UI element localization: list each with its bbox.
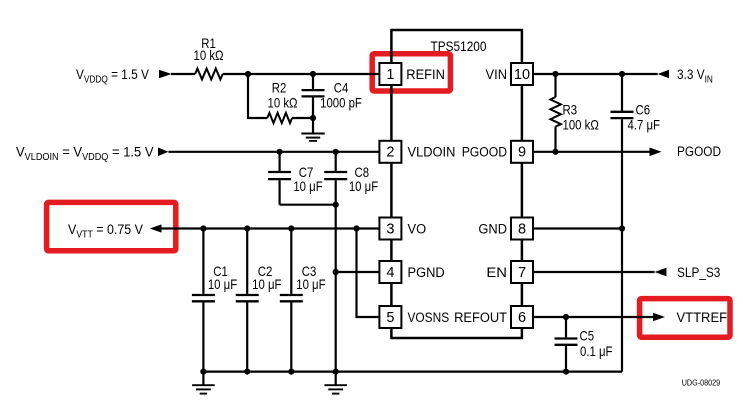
ground rail wire	[203, 371, 622, 373]
pin label PGOOD	[462, 144, 507, 160]
wire down to R2	[248, 74, 267, 118]
input arrow VLDOIN	[158, 148, 168, 157]
svg-text:4.7 μF: 4.7 μF	[628, 118, 661, 133]
IC U1 TPS51200 body outline	[391, 30, 522, 338]
svg-text:SLP_S3: SLP_S3	[677, 264, 720, 280]
wire R1 to pin 1	[223, 73, 380, 75]
node rail C8 branch	[333, 369, 339, 375]
label R2 value	[272, 81, 287, 96]
pin 1 box	[379, 63, 401, 85]
pin 7 box	[511, 261, 533, 283]
node C2 top	[244, 225, 250, 231]
pin label VLDOIN	[408, 144, 456, 160]
ground under C4	[301, 133, 324, 135]
capacitor C5	[565, 317, 567, 337]
svg-text:R2: R2	[272, 81, 287, 96]
wire joining C7 and C8 bottoms	[280, 204, 336, 206]
label C1 value	[213, 264, 228, 279]
svg-text:10 μF: 10 μF	[293, 179, 323, 194]
capacitor C4	[312, 74, 314, 89]
output arrow VTTREF	[653, 313, 665, 322]
node R2 branch	[245, 71, 251, 77]
label C7 value	[299, 165, 314, 180]
node C3 top	[288, 225, 294, 231]
pin 5 box	[379, 306, 401, 328]
resistor R1	[195, 69, 223, 80]
svg-text:C8: C8	[355, 165, 370, 180]
wire VDDQ input to R1	[171, 73, 195, 75]
label UDG-08029	[682, 378, 720, 388]
svg-text:VIN: VIN	[486, 66, 507, 82]
pin label VO	[408, 221, 427, 237]
wire GND pin 8 to C6 line	[533, 227, 622, 229]
node C5 bottom on rail	[563, 369, 569, 375]
capacitor C6	[621, 74, 623, 111]
node R3 top	[552, 71, 558, 77]
pin label REFIN	[406, 66, 445, 82]
wire REFOUT pin 6 to VTTREF	[533, 316, 653, 318]
pin label VOSNS	[408, 309, 450, 325]
svg-text:VO: VO	[408, 221, 427, 237]
svg-text:VTTREF: VTTREF	[677, 309, 728, 325]
pin 9 box	[511, 141, 533, 163]
node C6 top	[619, 71, 625, 77]
svg-text:10 μF: 10 μF	[349, 179, 379, 194]
svg-text:0.1 μF: 0.1 μF	[580, 344, 613, 359]
svg-text:PGOOD: PGOOD	[462, 144, 507, 160]
input arrow 3.3VIN	[658, 70, 669, 79]
node C1 top	[200, 225, 206, 231]
pin 10 box	[511, 63, 533, 85]
wire VOSNS tap down to pin 5	[357, 229, 381, 318]
svg-text:10 μF: 10 μF	[208, 277, 238, 292]
svg-text:1: 1	[386, 67, 394, 83]
label TPS51200	[431, 38, 487, 54]
label C8 value	[355, 165, 370, 180]
svg-text:PGOOD: PGOOD	[677, 143, 721, 159]
input arrow SLP_S3	[655, 268, 667, 277]
highlight box around VTTREF label	[640, 299, 730, 338]
capacitor C7	[279, 152, 281, 171]
pin label VIN	[486, 66, 507, 82]
pin label GND	[478, 221, 507, 237]
input arrow VDDQ	[159, 70, 172, 79]
output arrow PGOOD	[650, 148, 662, 157]
pin 2 box	[379, 141, 401, 163]
label PGOOD output	[677, 143, 721, 159]
label VTT output	[68, 222, 143, 240]
svg-text:UDG-08029: UDG-08029	[682, 378, 720, 388]
label R3 value	[563, 102, 578, 117]
svg-text:10 μF: 10 μF	[296, 277, 326, 292]
svg-text:10 kΩ: 10 kΩ	[193, 48, 223, 63]
wire C8 bottom down to ground rail	[335, 205, 337, 372]
svg-text:100 kΩ: 100 kΩ	[563, 118, 599, 133]
label VLDOIN source	[16, 144, 154, 163]
wire VTT rail to pin 3	[162, 227, 381, 229]
wire EN pin 7 to SLP_S3	[533, 271, 655, 273]
svg-text:4: 4	[386, 265, 394, 281]
node C5 top	[563, 314, 569, 320]
pin label EN	[486, 265, 507, 281]
svg-text:8: 8	[518, 221, 526, 237]
svg-text:TPS51200: TPS51200	[431, 38, 487, 54]
label C3 value	[302, 264, 317, 279]
label R1 value	[201, 36, 216, 51]
label SLP_S3	[677, 264, 720, 280]
svg-text:9: 9	[518, 145, 526, 161]
svg-text:2: 2	[386, 145, 394, 161]
svg-text:REFIN: REFIN	[406, 66, 445, 82]
pin 3 box	[379, 218, 401, 240]
svg-text:PGND: PGND	[408, 264, 445, 280]
svg-text:3: 3	[386, 221, 394, 237]
pin 6 box	[511, 306, 533, 328]
resistor R3	[554, 74, 556, 97]
label 3.3VIN	[677, 66, 713, 85]
svg-text:R3: R3	[563, 102, 578, 117]
pin label REFOUT	[454, 309, 507, 325]
svg-text:REFOUT: REFOUT	[454, 309, 507, 325]
label C5 value	[580, 329, 595, 344]
highlight box around pin 1 REFIN	[372, 54, 450, 91]
svg-text:10 μF: 10 μF	[252, 277, 282, 292]
svg-text:7: 7	[518, 265, 526, 281]
highlight box around VTT label	[47, 202, 176, 250]
node R3 bottom on PGOOD wire	[552, 149, 558, 155]
label C6 value	[636, 102, 651, 117]
label VTTREF output	[677, 309, 728, 325]
svg-text:C7: C7	[299, 165, 314, 180]
svg-text:10: 10	[514, 67, 530, 83]
pin 4 box	[379, 261, 401, 283]
svg-text:C6: C6	[636, 102, 651, 117]
wire PGOOD pin 9 to label	[533, 151, 650, 153]
svg-text:C5: C5	[580, 329, 595, 344]
svg-text:VLDOIN: VLDOIN	[408, 144, 456, 160]
svg-text:EN: EN	[486, 265, 507, 281]
node C7 top	[277, 149, 283, 155]
resistor R2	[267, 113, 292, 123]
wire VIN pin 10 to 3.3V	[533, 73, 658, 75]
node PGND junction	[333, 269, 339, 275]
capacitor C8	[335, 152, 337, 171]
wire VLDOIN input to pin 2	[168, 151, 380, 153]
svg-text:VOSNS: VOSNS	[408, 309, 450, 325]
svg-text:6: 6	[518, 310, 526, 326]
node C7/C8 join	[333, 202, 339, 208]
node GND junction	[619, 225, 625, 231]
wire PGND to pin 4	[336, 271, 380, 273]
svg-text:1000 pF: 1000 pF	[320, 96, 362, 111]
capacitor C3	[290, 229, 292, 294]
svg-text:GND: GND	[478, 221, 507, 237]
svg-text:10 kΩ: 10 kΩ	[267, 96, 297, 111]
svg-text:C4: C4	[334, 81, 349, 96]
node VOSNS tap	[353, 225, 359, 231]
pin 8 box	[511, 218, 533, 240]
label VDDQ source	[76, 66, 149, 85]
ground symbol left	[202, 372, 204, 385]
node R2-C4 junction	[310, 115, 316, 121]
label C4 value	[334, 81, 349, 96]
capacitor C2	[246, 229, 248, 294]
ground symbol center	[335, 372, 337, 385]
node rail C3	[288, 369, 294, 375]
output arrow VTT	[150, 224, 162, 232]
node C4 top	[310, 71, 316, 77]
wire R2 to C4	[292, 117, 313, 119]
capacitor C1	[202, 229, 204, 294]
svg-text:5: 5	[386, 310, 394, 326]
node rail C1	[200, 369, 206, 375]
pin label PGND	[408, 264, 445, 280]
node rail C2	[244, 369, 250, 375]
node C8 top	[333, 149, 339, 155]
label C2 value	[258, 264, 273, 279]
